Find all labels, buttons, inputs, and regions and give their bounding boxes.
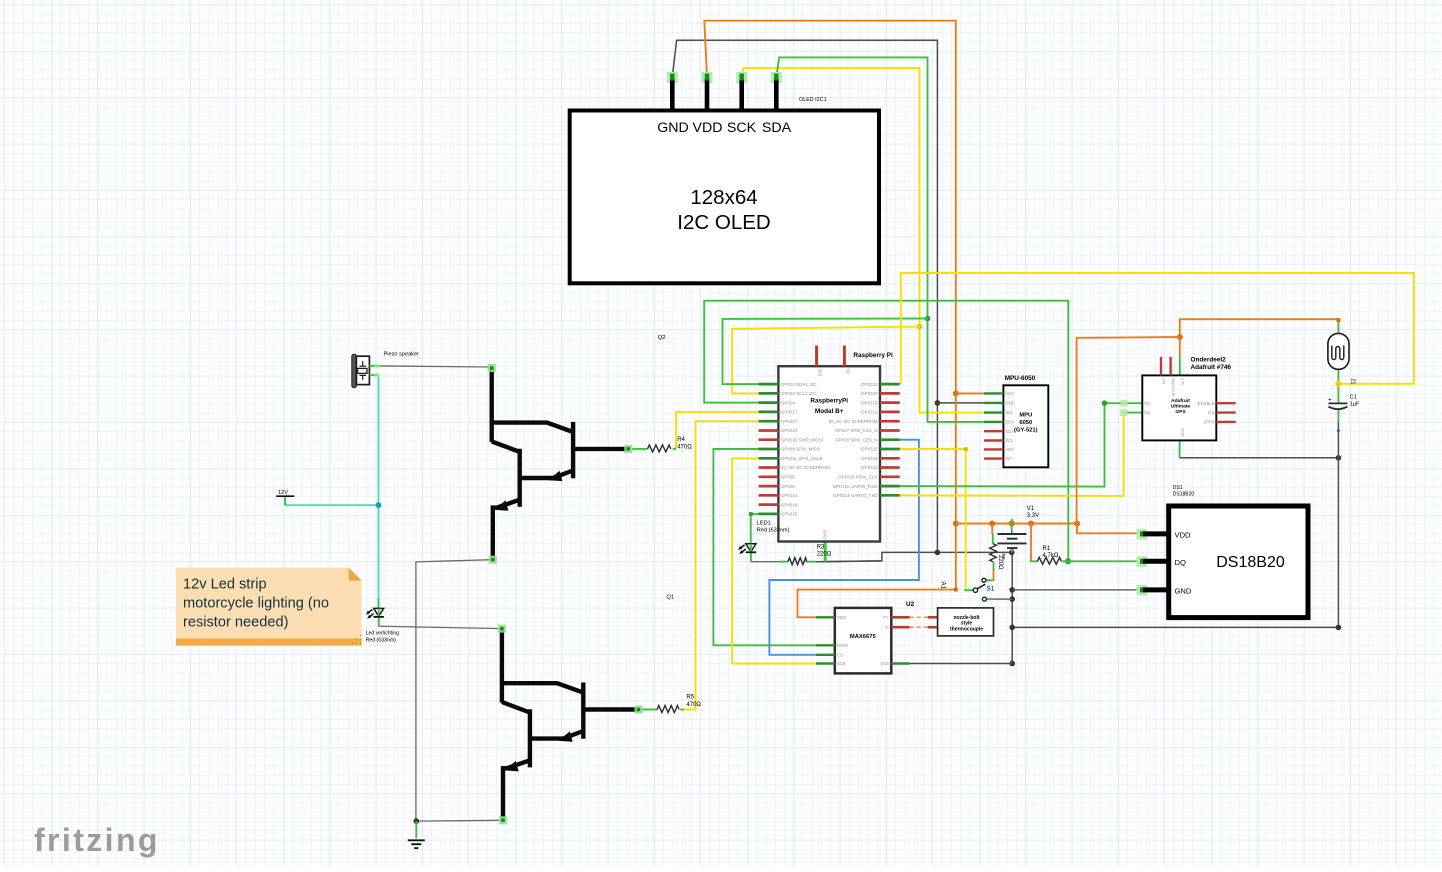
wire gray Q2 emitter down to ground node — [416, 560, 492, 821]
wire orange down to R6 top — [991, 524, 993, 535]
svg-text:motorcycle lighting (no: motorcycle lighting (no — [183, 596, 329, 612]
svg-text:XDA: XDA — [1005, 429, 1014, 434]
svg-text:SCK: SCK — [837, 661, 846, 666]
svg-text:GPIO10 SPI0_MOSI: GPIO10 SPI0_MOSI — [781, 437, 823, 442]
wire green R5 left stub — [641, 709, 657, 711]
MAX6675 thermocouple amplifier U2 — [816, 601, 938, 673]
node gray junction MAX VSS — [1009, 661, 1015, 667]
Pi pin 3V3 top — [815, 346, 818, 367]
svg-text:GPIO18 PCM_CLK: GPIO18 PCM_CLK — [838, 475, 879, 480]
node gray junction lamp/C1 ground — [1336, 455, 1342, 461]
wire green to S1 common — [964, 589, 973, 591]
svg-text:220Ω: 220Ω — [997, 555, 1003, 570]
wire OLED GND to gray vertical rail — [672, 40, 937, 552]
svg-text:A1: A1 — [940, 582, 947, 590]
svg-text:Ultimate: Ultimate — [1171, 404, 1191, 410]
wire green R3 left stub — [779, 561, 788, 563]
piezo pins — [369, 365, 378, 367]
MAX6675 pin T- and red wire to thermocouple — [891, 626, 909, 629]
node orange bus junction battery plus — [1009, 521, 1015, 527]
svg-text:VCC: VCC — [1005, 391, 1014, 396]
svg-text:C1: C1 — [1350, 395, 1357, 401]
svg-text:GND: GND — [1175, 586, 1192, 595]
DS18B20 pin GND — [1143, 587, 1169, 592]
svg-text:GPIO6: GPIO6 — [781, 484, 795, 489]
svg-text:VDD: VDD — [1175, 530, 1192, 539]
svg-text:VIN: VIN — [1162, 378, 1167, 385]
wire green battery plus stub — [1011, 519, 1013, 531]
svg-text:Adafruit #746: Adafruit #746 — [1191, 364, 1232, 371]
svg-text:T-: T- — [885, 625, 889, 630]
GPS pin ENABLE — [1216, 402, 1235, 404]
MPU pin labels — [1005, 391, 1014, 461]
svg-text:GPIO17: GPIO17 — [781, 410, 798, 415]
wire green Pi GPIO9 to MAX6675 MISO — [713, 449, 816, 645]
wire gray main ground vertical — [1011, 552, 1013, 663]
LED verlichting emission arrows — [368, 609, 372, 612]
svg-text:R3: R3 — [817, 545, 825, 551]
node yellow junction SCL branch to Pi — [917, 324, 923, 330]
svg-text:R1: R1 — [1043, 546, 1051, 552]
Pi left pin labels — [781, 382, 830, 517]
svg-text:GPIO22: GPIO22 — [781, 428, 798, 433]
svg-text:DQ: DQ — [1175, 558, 1186, 567]
MAX6675 pin VDD — [816, 616, 835, 618]
DS18B20 pin DQ — [1143, 559, 1169, 564]
svg-text:SDA: SDA — [762, 120, 792, 136]
GPS module Adafruit #746 Onderdeel2 — [1142, 357, 1235, 441]
GPS TX pad — [1121, 400, 1128, 407]
GPS pin FIX — [1216, 411, 1235, 413]
wire green Pi GND stub down — [824, 542, 827, 562]
svg-text:R5: R5 — [686, 695, 694, 701]
wire OLED SCK yellow net down to MPU SCL — [742, 68, 984, 413]
svg-text:Onderdeel2: Onderdeel2 — [1191, 357, 1227, 364]
wire green R6 top stub — [992, 534, 994, 544]
wire green at S1 throw B — [987, 598, 994, 600]
MPU-6050 GY-521 module — [984, 375, 1048, 467]
svg-text:GPIO4: GPIO4 — [781, 400, 795, 405]
node gray junction bottom rail left — [1009, 625, 1015, 631]
node yellow junction lamp bottom — [1335, 381, 1341, 387]
svg-text:GPIO25: GPIO25 — [861, 447, 878, 452]
svg-text:T+: T+ — [884, 615, 890, 620]
svg-text:Modal B+: Modal B+ — [815, 408, 844, 415]
svg-text:LED1: LED1 — [757, 521, 771, 527]
svg-text:MISO: MISO — [837, 643, 849, 648]
wire green C1 bottom stub — [1337, 410, 1339, 422]
svg-text:DS18B20: DS18B20 — [1173, 492, 1195, 498]
piezo pads — [374, 363, 379, 368]
node orange bus junction DS18B20 VDD — [1074, 521, 1080, 527]
node orange bend marker A1 corner — [954, 588, 958, 592]
wire yellow Pi GPIO17 to R4 — [676, 412, 759, 449]
DS18B20 temperature sensor DS1 — [1137, 485, 1309, 618]
svg-text:SDA: SDA — [1005, 420, 1014, 425]
wire teal 12V net vertical piezo to LED strip — [378, 375, 380, 598]
svg-text:GPIO24: GPIO24 — [861, 456, 878, 461]
svg-text:3.3V: 3.3V — [1027, 513, 1039, 519]
wire green lamp bottom stub to C1 — [1337, 369, 1339, 403]
MAX6675 pin T+ and red wire to thermocouple — [891, 616, 909, 619]
svg-text:GPIO5: GPIO5 — [781, 475, 795, 480]
Pi pin 5V top — [843, 346, 846, 367]
MAX6675 pin VSS — [891, 662, 909, 664]
OLED pad VDD — [702, 72, 713, 83]
switch S1 SPDT — [973, 578, 995, 601]
OLED pad SCK — [736, 72, 747, 83]
svg-text:(GY-521): (GY-521) — [1014, 428, 1038, 434]
transistor Q1 (darlington) — [502, 629, 639, 821]
svg-text:6050: 6050 — [1019, 420, 1032, 426]
svg-text:Q1: Q1 — [666, 595, 674, 601]
wire OLED VDD orange net down right side to MAX6675 VDD — [704, 21, 956, 618]
wire green battery minus stub — [1011, 550, 1013, 553]
wire gray ground node to Q1 emitter — [416, 819, 502, 822]
svg-text:3.3V: 3.3V — [1180, 378, 1185, 387]
GPS pin VIN — [1160, 357, 1162, 376]
svg-text:Raspberry Pi: Raspberry Pi — [853, 352, 893, 359]
wire green LED strip top stub — [378, 598, 380, 608]
wire green at switch throw A — [986, 579, 993, 581]
wire yellow SCL branch to Pi GPIO3 — [732, 327, 919, 394]
svg-text:1PPS: 1PPS — [1204, 420, 1215, 425]
LED verlichting red 633nm (12v led strip) — [366, 608, 400, 643]
svg-text:VBACKUP: VBACKUP — [1171, 378, 1176, 397]
svg-text:GPIO15 UART0_RXD: GPIO15 UART0_RXD — [832, 484, 878, 489]
svg-text:GPIO16: GPIO16 — [861, 400, 878, 405]
svg-text:Z1: Z1 — [1350, 379, 1356, 385]
wire orange down to R1 left — [1030, 524, 1032, 562]
wire green GPS TX stub — [1124, 402, 1142, 404]
wire green GPS RX stub — [1124, 412, 1143, 414]
Pi right pins — [880, 384, 900, 495]
LED1 emission arrows — [741, 545, 745, 548]
wire green Pi GPIO15 to GPS TX — [900, 403, 1125, 486]
wire gray LED strip cathode to Q1 collector — [379, 626, 502, 628]
svg-text:VSS: VSS — [880, 661, 889, 666]
svg-text:GPIO9 SPI0_MISO: GPIO9 SPI0_MISO — [781, 447, 821, 452]
svg-text:GPIO14 UART0_TXD: GPIO14 UART0_TXD — [833, 493, 878, 498]
node gray rail junction at OLED GND drop — [935, 550, 941, 556]
wire orange lamp feed from GPS junction — [1180, 319, 1339, 337]
svg-text:GPIO13: GPIO13 — [781, 493, 798, 498]
svg-text:ID_SD I2C ID EEPROM: ID_SD I2C ID EEPROM — [781, 465, 830, 470]
capacitor C1 1uF — [1328, 395, 1360, 410]
GPS pin VBACKUP — [1169, 357, 1171, 376]
svg-text:GPIO19: GPIO19 — [781, 502, 798, 507]
svg-text:GPIO8 SPI0_CE0_N: GPIO8 SPI0_CE0_N — [835, 437, 878, 442]
svg-text:FIX: FIX — [1208, 410, 1215, 415]
svg-text:GPIO20: GPIO20 — [861, 391, 878, 396]
wire green R6 bottom stub — [993, 562, 995, 571]
svg-text:VDD: VDD — [693, 120, 723, 136]
wire yellow Pi GPIO14 to GPS RX — [900, 413, 1124, 496]
wire yellow Pi GPIO27 to R5 — [684, 421, 760, 709]
OLED pad SDA — [771, 72, 782, 83]
wire gray from S1 throw B — [994, 598, 1013, 600]
node gray junction switch throw B — [1009, 596, 1015, 602]
node gray junction at ground symbol — [414, 818, 420, 824]
svg-text:3V3: 3V3 — [818, 369, 823, 377]
OLED display 128x64 I2C — [570, 72, 879, 283]
svg-text:Red (633nm): Red (633nm) — [757, 528, 790, 534]
wire black MAX6675 VSS to ground vertical — [910, 663, 1013, 665]
svg-text:thermocouple: thermocouple — [950, 626, 983, 632]
svg-text:4.7kΩ: 4.7kΩ — [1043, 553, 1059, 559]
wire green 12V symbol stub — [284, 496, 286, 505]
svg-text:Led verlichting: Led verlichting — [366, 631, 400, 637]
node gray junction battery minus — [1009, 550, 1015, 556]
DS18B20 pad DQ — [1137, 556, 1148, 567]
svg-text:GND: GND — [823, 530, 828, 540]
node gray junction DS GND — [1009, 587, 1015, 593]
MAX6675 pin MISO — [816, 644, 835, 646]
svg-text:fritzing: fritzing — [34, 822, 160, 858]
svg-text:VDD: VDD — [837, 615, 846, 620]
node orange bus junction R1 — [1028, 521, 1034, 527]
svg-text:SCL: SCL — [1005, 410, 1014, 415]
svg-text:12V: 12V — [278, 490, 288, 496]
wire gray GND rail horizontal to battery minus — [820, 552, 1012, 561]
svg-text:Red (633nm): Red (633nm) — [366, 637, 397, 643]
wire OLED SDA green net down to MPU SDA — [776, 57, 984, 422]
wire green Pi GPIO26 to LED1 anode — [751, 514, 759, 544]
svg-text:U2: U2 — [906, 601, 915, 608]
thermocouple nozzle-bolt style — [938, 608, 994, 636]
node orange junction MPU VCC — [953, 390, 959, 396]
svg-text:470Ω: 470Ω — [677, 445, 692, 451]
wire green LED strip bottom stub — [378, 618, 380, 626]
resistor R4 470 ohm — [648, 437, 693, 452]
svg-text:RX: RX — [1144, 410, 1150, 415]
wire green GPS 3.3V pin — [1179, 357, 1181, 376]
OLED pin SCK — [739, 79, 744, 112]
svg-text:+: + — [1328, 396, 1332, 403]
svg-text:GPIO23: GPIO23 — [861, 465, 878, 470]
node gray junction bottom rail right — [1336, 625, 1342, 631]
svg-text:ENABLE: ENABLE — [1198, 401, 1215, 406]
svg-text:resistor needed): resistor needed) — [183, 615, 288, 631]
svg-text:TX: TX — [1144, 401, 1150, 406]
svg-text:OLED I2C1: OLED I2C1 — [799, 97, 827, 103]
svg-text:GPIO2 SDA1 I2C: GPIO2 SDA1 I2C — [781, 382, 817, 387]
svg-text:GPS: GPS — [1175, 409, 1186, 415]
node teal junction 12V — [376, 502, 382, 508]
OLED pin labels — [657, 120, 791, 136]
wire orange 3.3V power bus — [956, 523, 1077, 525]
Raspberry Pi Model B+ U? — [759, 346, 900, 542]
Pi right pin labels — [829, 382, 879, 498]
wire teal 12V horizontal — [285, 504, 379, 506]
node green junction R1 right / DQ — [1065, 558, 1071, 564]
wire orange GPS 3.3V stub — [1179, 337, 1181, 357]
wire green lamp top stub — [1337, 320, 1339, 334]
wire yellow Pi GPIO11 to MAX6675 SCK — [732, 458, 816, 663]
wire gray R3 right to rail riser — [816, 560, 882, 563]
node yellow wire end marker at switch riser — [964, 447, 968, 451]
resistor R5 470 ohm — [657, 695, 701, 713]
wire orange bus to DS18B20 VDD — [1077, 524, 1141, 534]
resistor R1 4.7k ohm — [1037, 546, 1068, 564]
12V power symbol — [276, 490, 294, 496]
battery V1 3.3V — [998, 506, 1040, 548]
svg-text:GPIO26: GPIO26 — [781, 512, 798, 517]
wire MPU GND branch — [937, 402, 984, 404]
ground symbol — [408, 840, 425, 848]
Pi left pins — [759, 384, 779, 514]
svg-text:GND: GND — [1180, 428, 1185, 437]
node green junction SDA branch to Pi — [925, 316, 931, 322]
wire green SDA branch to Pi GPIO2 — [723, 319, 928, 385]
note 12v Led strip — [176, 568, 362, 646]
wire gray piezo top to Q2 collector — [379, 366, 492, 367]
wire green Pi GPIO4 loop to DS18B20 DQ net — [704, 301, 1068, 562]
svg-text:Q2: Q2 — [658, 335, 666, 341]
OLED pin SDA — [774, 79, 779, 112]
svg-text:DS18B20: DS18B20 — [1216, 554, 1285, 571]
svg-text:GPIO7 SPI0_CE1_N: GPIO7 SPI0_CE1_N — [835, 428, 878, 433]
svg-text:GPIO21: GPIO21 — [861, 382, 878, 387]
svg-text:Piezo speaker: Piezo speaker — [384, 352, 420, 358]
node green wire end marker GPIO26 — [749, 512, 753, 516]
wire green R3 right stub — [807, 561, 816, 563]
resistor R6 220 ohm vertical — [990, 544, 1006, 570]
lamp Z1 — [1328, 333, 1356, 384]
svg-text:I2C OLED: I2C OLED — [677, 211, 770, 234]
svg-text:GPIO3 SCL1 I2C: GPIO3 SCL1 I2C — [781, 391, 817, 396]
wire gray battery minus pin — [1011, 548, 1013, 550]
svg-text:DS1: DS1 — [1173, 485, 1183, 491]
GPS pin 1PPS — [1216, 421, 1235, 423]
svg-text:MPU-6050: MPU-6050 — [1005, 375, 1036, 382]
svg-text:GPIO11 SPI0_SCLK: GPIO11 SPI0_SCLK — [781, 456, 824, 461]
svg-text:SCK: SCK — [727, 120, 757, 136]
transistor Q2 (darlington) — [492, 368, 629, 560]
wire orange R6 bottom to switch throw A — [986, 571, 993, 581]
wire gray C1 bottom to ground rail — [1012, 421, 1338, 627]
MPU pins — [984, 393, 1003, 458]
svg-text:V1: V1 — [1027, 506, 1035, 512]
MAX6675 pin CS — [816, 654, 835, 656]
wire gray LED1 to R3 left — [751, 561, 780, 563]
svg-text:MAX6675: MAX6675 — [850, 634, 877, 640]
svg-text:GND: GND — [657, 120, 689, 136]
svg-text:R4: R4 — [677, 437, 685, 443]
DS18B20 pad GND — [1137, 585, 1148, 596]
DS18B20 pad VDD — [1137, 529, 1148, 540]
svg-text:INT: INT — [1005, 456, 1012, 461]
node orange bus junction R6 — [989, 521, 995, 527]
piezo speaker — [352, 352, 419, 388]
svg-text:1μF: 1μF — [1350, 402, 1360, 408]
svg-text:220Ω: 220Ω — [817, 552, 832, 558]
wire green R5 right stub — [680, 709, 684, 711]
svg-text:S1: S1 — [987, 586, 995, 593]
svg-text:GPIO12: GPIO12 — [861, 410, 878, 415]
wire gray battery plus pin — [1011, 531, 1013, 534]
svg-text:CS: CS — [837, 653, 843, 658]
node green junction GPS TX — [1102, 400, 1108, 406]
svg-text:XCL: XCL — [1005, 438, 1014, 443]
wire yellow Pi GPIO21 to lamp Z1 loop — [901, 273, 1414, 384]
MAX6675 pin SCK — [816, 662, 835, 664]
wire gray GPS GND to right riser — [1180, 457, 1339, 459]
svg-text:AD0: AD0 — [1005, 447, 1014, 452]
wire green R4 left stub — [632, 448, 648, 450]
DS18B20 pin VDD — [1143, 531, 1169, 536]
wire green R1 left stub — [1031, 560, 1037, 561]
wire yellow Pi GPIO25 to switch S1 — [900, 449, 966, 590]
wire gray to DS18B20 GND — [1012, 589, 1141, 591]
wire green ground symbol stub — [415, 821, 417, 838]
node orange junction above GPS — [1177, 334, 1183, 340]
wire green R1 right to DS18B20 DQ — [1062, 560, 1141, 562]
Q2 pads — [488, 364, 496, 372]
wire orange from MPU-side riser to GPS junction — [1077, 337, 1180, 524]
svg-text:GND: GND — [1005, 401, 1014, 406]
Q1 pads — [498, 625, 506, 633]
node orange junction power bus left end — [953, 521, 959, 527]
note resize handle dots — [352, 635, 362, 645]
wire blue Pi GPIO8 to MAX6675 CS — [769, 440, 919, 655]
svg-text:470Ω: 470Ω — [686, 702, 701, 708]
node gray small C1 wire end — [1337, 429, 1340, 432]
node gray junction MPU GND branch — [935, 400, 941, 406]
svg-text:12v Led strip: 12v Led strip — [183, 577, 267, 593]
wire green GPS GND down — [1179, 440, 1181, 457]
wire yellow R4 right riser overlap — [673, 448, 677, 450]
OLED pin VDD — [705, 79, 710, 112]
svg-text:5V: 5V — [845, 369, 850, 374]
svg-text:Adafruit: Adafruit — [1171, 398, 1190, 404]
node orange lamp wire end — [1336, 318, 1340, 322]
svg-text:MPU: MPU — [1019, 413, 1032, 419]
OLED pad GND — [667, 72, 678, 83]
svg-text:RaspberryPi: RaspberryPi — [810, 398, 848, 405]
wire green LED1 bottom stub to R3 wire — [750, 552, 752, 561]
GPS RX pad — [1120, 409, 1127, 416]
svg-text:ID_SC I2C ID EEPROM: ID_SC I2C ID EEPROM — [829, 419, 878, 424]
svg-text:128x64: 128x64 — [690, 186, 757, 209]
resistor R3 220 ohm — [788, 545, 832, 565]
OLED pin GND — [670, 79, 675, 112]
svg-text:GPIO27: GPIO27 — [781, 419, 798, 424]
wire MPU VCC branch orange — [956, 392, 984, 394]
LED1 red 633nm — [738, 521, 789, 555]
